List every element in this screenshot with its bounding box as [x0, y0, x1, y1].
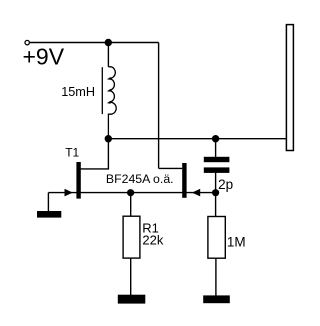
transistor T2 gate arrow	[192, 189, 200, 197]
capacitor C 2p stub top	[215, 139, 217, 157]
resistor R2 1M body	[208, 217, 225, 259]
antenna rod	[286, 25, 293, 151]
svg-text:T1: T1	[65, 146, 79, 160]
inductor cusp nub 2	[107, 89, 111, 92]
ground gate	[37, 211, 61, 218]
wire top rail	[30, 42, 159, 44]
resistor R1 22k body	[123, 216, 140, 258]
ground under R1	[118, 295, 146, 304]
wire second rail to antenna	[108, 138, 286, 140]
wire R1 bottom	[130, 258, 132, 295]
inductor cusp nub 1	[107, 77, 111, 80]
svg-text:2p: 2p	[218, 177, 233, 192]
wire R2 bottom	[215, 258, 217, 295]
capacitor C 2p plate bottom	[204, 167, 230, 173]
node junction capacitor top	[212, 135, 219, 142]
svg-text:22k: 22k	[142, 232, 163, 247]
transistor T1 gate arrow	[65, 189, 73, 197]
svg-text:1M: 1M	[227, 234, 246, 249]
wire R2 top	[215, 193, 217, 217]
wire +9V branch down	[158, 43, 160, 169]
wire gate to ground	[47, 193, 49, 212]
node junction R1 top	[127, 189, 134, 196]
transistor T1 channel bar	[76, 162, 80, 199]
svg-text:+9V: +9V	[23, 44, 65, 70]
node junction gate2	[212, 189, 219, 196]
transistor T2 channel bar	[182, 163, 186, 198]
inductor cusp nub 3	[107, 101, 111, 104]
wire T1 drain	[81, 139, 109, 169]
node junction coil bottom	[105, 135, 112, 142]
terminal +9V	[25, 40, 29, 44]
svg-text:BF245A o.ä.: BF245A o.ä.	[106, 172, 174, 186]
wire dot to coil top	[107, 43, 109, 67]
node junction top	[105, 39, 112, 46]
wire to T2 drain	[159, 167, 183, 169]
capacitor C 2p stub bottom	[215, 173, 217, 193]
wire gate-source row	[48, 192, 215, 194]
inductor L 15mH	[108, 67, 116, 139]
svg-text:15mH: 15mH	[61, 85, 95, 99]
wire R1 top	[130, 193, 132, 217]
inductor core line	[101, 67, 103, 114]
capacitor C 2p plate top	[204, 157, 230, 162]
ground under R2	[203, 295, 230, 303]
